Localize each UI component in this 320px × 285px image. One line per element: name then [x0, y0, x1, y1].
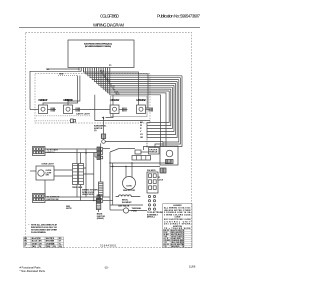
wire continuations to ignitor column: [103, 148, 110, 150]
footer date: [189, 265, 196, 269]
outer dashed frame: [26, 33, 192, 248]
legend box: [163, 204, 192, 248]
switch oven light: [36, 166, 54, 180]
svg-text:BK-W: BK-W: [100, 71, 105, 73]
svg-text:316443801: 316443801: [100, 243, 117, 247]
svg-text:WIRING DIAGRAM: WIRING DIAGRAM: [93, 23, 125, 28]
svg-text:W: W: [140, 125, 142, 127]
svg-text:UNLOCKED: UNLOCKED: [82, 194, 94, 196]
svg-text:CONV: CONV: [126, 186, 132, 188]
lamp/switch OVEN LIGHT: [39, 105, 48, 114]
svg-text:NOT DISCONNECT ANY OTHER: NOT DISCONNECT ANY OTHER: [31, 229, 58, 232]
EOC connector pin ticks: [79, 68, 110, 71]
wire switch stub left: [30, 170, 36, 172]
wire bottom horizontals: [110, 204, 143, 206]
svg-text:CAVITY LIGHT: CAVITY LIGHT: [76, 113, 90, 116]
svg-text:(BROIL): (BROIL): [147, 217, 155, 219]
wire long bus2: [110, 166, 160, 168]
dashed cavity lamp wire: [36, 115, 90, 117]
svg-text:INDICATED PLUGS ONLY. DO: INDICATED PLUGS ONLY. DO: [31, 226, 57, 229]
svg-text:BU-W: BU-W: [110, 86, 115, 88]
svg-text:(2): (2): [94, 130, 97, 132]
wire conn2 to plugs: [45, 196, 97, 198]
svg-text:NOTE: ALL DISCONNECTS AT: NOTE: ALL DISCONNECTS AT: [31, 223, 58, 226]
node junction circle: [102, 140, 106, 144]
footer non-illustrated parts: [20, 269, 46, 273]
spark module box: [149, 148, 160, 155]
lamp/switch LATCH SW2: [137, 105, 146, 114]
svg-text:PINK: PINK: [46, 246, 51, 248]
svg-text:-15-: -15-: [104, 266, 109, 270]
op-amp U1 electronic oven control: [68, 40, 134, 68]
wire long bus1: [110, 162, 170, 164]
svg-text:GRAY: GRAY: [32, 242, 38, 245]
wire L1 to left: [46, 69, 79, 70]
wire: [146, 109, 151, 111]
wire color labels: [100, 71, 120, 96]
svg-text:(REAR): (REAR): [97, 217, 104, 220]
svg-text:V-W: V-W: [105, 78, 109, 80]
header title: [93, 23, 125, 28]
svg-text:T-R: T-R: [163, 246, 167, 248]
wire ladder stubs: [77, 149, 81, 201]
label oven sensor: [97, 213, 106, 221]
wire ladder drop: [146, 123, 148, 148]
svg-text:LATCH SW: LATCH SW: [110, 98, 120, 102]
footer functional parts: [20, 266, 42, 270]
svg-text:OVEN LIGHT: OVEN LIGHT: [38, 98, 48, 102]
connector P13: [33, 194, 46, 203]
wire fan from EOC pins: [83, 70, 182, 146]
lamp/switch LATCH MOTOR: [64, 105, 73, 114]
svg-text:SW: SW: [46, 175, 49, 177]
resistor ignitor body: [101, 134, 105, 139]
svg-text:FUSE: FUSE: [132, 211, 138, 213]
label plug P4: [66, 206, 72, 210]
resistor bake ignitor: [96, 199, 101, 210]
svg-text:LOCK: LOCK: [158, 179, 164, 181]
thermostat bulb: [123, 208, 128, 213]
svg-text:TAN: TAN: [32, 245, 37, 248]
dashed chassis wire: [58, 75, 77, 77]
svg-text:R-W: R-W: [103, 75, 107, 77]
label lock stub: [158, 177, 164, 181]
label thermal fuse: [132, 207, 143, 212]
wire: [73, 109, 82, 111]
svg-text:FAN MOTOR: FAN MOTOR: [123, 189, 136, 192]
connector P12: [33, 147, 46, 156]
motor door lock: [160, 146, 178, 165]
wire N to left: [30, 70, 81, 110]
wire mid verticals left: [85, 149, 87, 198]
label wiring note: [82, 190, 98, 197]
wire drop to latch motor: [68, 76, 80, 106]
wire conn1 to plugs: [45, 148, 97, 150]
connector hatched lock feed: [160, 168, 166, 173]
wire: [119, 109, 128, 111]
wire to spark module: [110, 149, 135, 153]
svg-text:LATCH MOTOR: LATCH MOTOR: [63, 98, 73, 102]
fuse body: [135, 150, 141, 154]
console dashed box: [35, 74, 150, 124]
connector hatch: [51, 108, 55, 112]
terminal dots grid: [148, 195, 155, 210]
svg-text:NOTE: NOTE: [66, 208, 72, 210]
header model number: [100, 14, 119, 19]
motor conv fan: [123, 177, 136, 190]
svg-text:GAS VALVE: GAS VALVE: [118, 205, 130, 208]
header publication number: [157, 14, 201, 19]
EOC pin label P1: [109, 65, 112, 67]
svg-text:GND: GND: [59, 74, 64, 76]
wire junction to right: [105, 141, 163, 143]
dashed door wire: [36, 120, 70, 122]
relay board connector: [147, 172, 158, 193]
svg-text:(MOUNTED ON REAR OF CONSOLE): (MOUNTED ON REAR OF CONSOLE): [85, 45, 111, 48]
svg-text:OVEN LIGHT: OVEN LIGHT: [42, 164, 55, 166]
svg-text:CGLGF386D: CGLGF386D: [100, 14, 119, 19]
footer page number: [104, 266, 109, 270]
connector hatch: [76, 108, 80, 112]
wire drop to oven light: [43, 70, 83, 105]
header rule: [19, 27, 200, 29]
wire ladder right stubs: [84, 168, 94, 174]
svg-text:Publication No: 5995473607: Publication No: 5995473607: [157, 14, 201, 19]
legend color table: [163, 230, 192, 248]
wire ignitor leads: [100, 143, 102, 182]
terminal strip ladder: [73, 164, 78, 185]
right vertical wire bus: [144, 76, 183, 150]
connector strip row: [132, 156, 151, 161]
plug symbol: [71, 119, 74, 123]
label L1: [47, 69, 50, 71]
resistor oven ignitor: [99, 182, 104, 196]
wire console bus: [30, 109, 39, 111]
wire latch drop: [95, 95, 150, 121]
svg-text:11/06: 11/06: [189, 265, 196, 269]
inductor broil element: [116, 195, 141, 197]
note block: [29, 223, 58, 234]
wire: [48, 109, 57, 111]
svg-text:TAN-RED: TAN-RED: [171, 245, 180, 248]
label electrode: [147, 212, 163, 219]
plug pair bottom: [97, 195, 103, 199]
svg-text:PLUGS OR WIRING.: PLUGS OR WIRING.: [31, 232, 46, 234]
wire color code table: [24, 237, 64, 248]
wire latch boxA feed: [112, 95, 114, 105]
label gas valve: [118, 205, 130, 208]
svg-text:LATCH SW2: LATCH SW2: [136, 98, 146, 102]
wire ladder labels: [140, 122, 144, 139]
svg-text:* Non-Illustrated Parts: * Non-Illustrated Parts: [20, 269, 46, 273]
latch assembly enclosure: [111, 96, 148, 117]
drawing number: [100, 243, 117, 247]
svg-text:DSI MOD: DSI MOD: [147, 170, 156, 172]
wire switch to strip: [54, 169, 73, 171]
label bake broil ignitor: [94, 125, 107, 133]
svg-text:ELEMENT: ELEMENT: [122, 202, 132, 204]
wire latch corner arrow: [106, 114, 114, 118]
wire ignitor drop: [103, 117, 105, 134]
plug pair top: [97, 147, 103, 151]
wire switch bottom drop: [44, 180, 46, 197]
lamp/switch LATCH SW: [110, 105, 119, 114]
connector hatch: [123, 108, 127, 112]
wire mid verticals: [109, 152, 111, 210]
wire conv fan feeds: [125, 167, 127, 178]
connector hatch: [149, 108, 153, 112]
svg-text:MODULE: MODULE: [149, 152, 158, 154]
